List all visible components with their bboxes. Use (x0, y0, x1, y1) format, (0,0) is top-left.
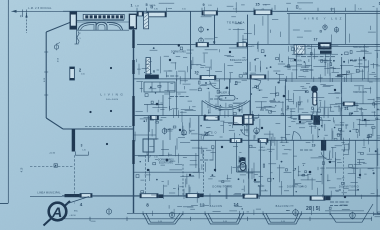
top double line right (287, 13, 380, 15)
living wall bottom (63, 128, 134, 130)
accent dot 1 (239, 160, 242, 163)
right wall seg y103 (343, 102, 355, 106)
ref dot b (110, 110, 112, 112)
circ 35 (323, 24, 327, 31)
cocina verts b (311, 44, 313, 79)
section break squiggle (77, 32, 79, 44)
dim arrow left (12, 10, 17, 13)
column C1 (70, 67, 75, 80)
top tick 7 (287, 8, 289, 12)
ref dot a (110, 67, 112, 69)
paso vert b (169, 128, 171, 140)
tick y213 0 (142, 211, 144, 215)
top tick 4 (217, 8, 219, 12)
hab line y46 (300, 45, 380, 47)
hab pier bar (320, 51, 332, 54)
dorm esc top wall (134, 154, 199, 156)
wall seg y140 b (258, 139, 268, 143)
hall vert b (162, 95, 164, 116)
dashed vert x145 (144, 155, 146, 196)
tt5 (240, 129, 248, 131)
wall seg y115 a (204, 116, 219, 120)
arch baseline (77, 29, 129, 31)
right edge vertical (376, 11, 378, 213)
stair tread a (209, 104, 211, 113)
front wall seg 2 (140, 194, 158, 198)
cocina vert (229, 79, 231, 95)
accent dot 4 (204, 115, 207, 118)
dorm1 vert b (182, 164, 184, 196)
drafting arrow (337, 73, 356, 76)
br mark 2 (375, 216, 380, 218)
door paso2 (292, 131, 301, 140)
balcony sym 4 (350, 212, 356, 220)
palier vert left (201, 101, 203, 116)
toilet (240, 157, 245, 164)
top tick 1 (146, 8, 148, 12)
front pier 2 (326, 196, 331, 200)
front pier 3 (200, 194, 204, 198)
accent dot 9 (156, 103, 159, 106)
stair tread c (232, 108, 234, 116)
dashed horiz y166 (30, 165, 74, 167)
wall seg y44 a (196, 43, 209, 47)
door paso1 (203, 131, 212, 140)
stair tread d (241, 105, 243, 113)
clutter palier band (136, 80, 287, 122)
vert x341 habitacion (341, 57, 343, 140)
tt3 (300, 69, 313, 71)
wall pier dark y44 (318, 42, 332, 49)
tick y213 5 (301, 211, 303, 215)
vert x148 lower (147, 116, 149, 162)
accent dot 17 (294, 59, 296, 61)
clutter right band2 (285, 117, 380, 149)
dorm north dot (178, 44, 180, 46)
balcony pier left (70, 12, 76, 29)
tt1 (170, 96, 189, 98)
balcony railing bar (83, 14, 124, 19)
bath fixture oval (240, 163, 246, 171)
terraza inner vert (267, 15, 269, 45)
hab pier frame (319, 43, 332, 50)
railing lower line 1 (77, 20, 124, 22)
hab line y54 (300, 53, 338, 55)
window symbol (54, 44, 58, 51)
accent dot 19 (169, 59, 171, 61)
bottom dim line (57, 218, 372, 220)
small square sym (54, 164, 57, 167)
section marker A circle (49, 203, 67, 221)
cocina verts a (296, 44, 298, 79)
cabinet div 3 (167, 82, 169, 92)
main wall vertical (133, 29, 135, 214)
living wall diagonal (46, 22, 71, 32)
living wall tick 3 (44, 94, 48, 96)
living wall bottom diagonal (46, 118, 63, 129)
kitchen counter (285, 65, 310, 67)
tick y213 2 (204, 211, 206, 215)
linea municipal thin (30, 195, 62, 197)
pier stub tick (75, 43, 79, 45)
hall horiz a (144, 104, 163, 106)
column circle (311, 86, 318, 93)
tall pier y140 (321, 140, 326, 151)
wall seg y79 a (200, 76, 216, 80)
right vert x364 (364, 44, 366, 79)
section cut line thin (66, 197, 89, 205)
clutter breakfast (137, 46, 291, 84)
closet vert x277 (276, 140, 278, 160)
accent dot 12 (364, 119, 366, 121)
hab dot (363, 57, 365, 59)
accent dot 11 (334, 89, 336, 91)
railing lower line 2 (77, 21, 129, 23)
clutter dorm band right (286, 143, 380, 199)
tt9 (200, 159, 213, 161)
palier dot (226, 87, 229, 90)
balcony sym 3 (293, 209, 299, 217)
hatched pier y44 (294, 45, 305, 54)
terraza pier hatched (144, 13, 149, 29)
clutter aire y luz (293, 26, 376, 44)
top tick 0 (136, 8, 138, 12)
bath wall vert (236, 140, 238, 172)
right edge tick 1 (375, 78, 379, 80)
clutter right mid (285, 82, 380, 121)
pier y79 dark (145, 75, 159, 79)
paso vert a (155, 116, 157, 140)
top tick 8 (317, 8, 319, 12)
br tiny row 1 (330, 201, 349, 203)
palier vert right (249, 101, 251, 116)
tt2 (210, 98, 222, 100)
vert x293 (293, 140, 295, 196)
duct below column (313, 92, 317, 105)
door hall (241, 128, 249, 136)
right edge tick 2 (375, 115, 379, 117)
palier top cap (219, 96, 235, 101)
dim tick b (26, 10, 28, 15)
main wall thick segment 1 (132, 96, 134, 126)
terraza vert wall 2 (247, 15, 249, 79)
terraza sym 2 (199, 37, 204, 44)
balcony dip 4 right (330, 204, 373, 222)
door cocina (252, 79, 261, 88)
front wall dark seg (65, 194, 81, 197)
wall seg y44 b (237, 43, 248, 47)
br mark 1 (373, 214, 380, 216)
tt10 (260, 109, 268, 111)
wall seg y140 a (230, 139, 242, 143)
vert x198 (198, 116, 200, 172)
dim arrow up (25, 14, 27, 18)
vert x260 (260, 140, 262, 196)
accent dot 15 (329, 161, 331, 163)
top wall segment D (137, 12, 144, 16)
railing balusters (85, 15, 123, 18)
tt6 (150, 119, 162, 121)
wall seg y79 b (250, 75, 266, 79)
front wall seg 1 (80, 194, 92, 198)
accent dot 18 (229, 51, 231, 53)
front wall seg 3 (186, 194, 199, 198)
vert right block b (345, 14, 347, 45)
paso sym 2 (182, 129, 187, 136)
accent dot 2 (309, 171, 312, 174)
tick y213 4 (262, 211, 264, 215)
dim tick a (22, 10, 24, 18)
right dorm vert x355 (355, 140, 357, 196)
shaft box 2 (234, 116, 243, 125)
balcony dip 2 (205, 213, 244, 224)
stub threshold (75, 152, 88, 156)
tiny after bar (166, 75, 178, 77)
hatched pier kitchen (146, 58, 150, 75)
top tick 3 (201, 8, 203, 12)
top tick 9 (331, 8, 333, 12)
ref dot d (106, 143, 108, 145)
palier stair arc2 (205, 101, 247, 109)
clutter bottom strip (153, 205, 380, 220)
circ 30 (334, 26, 338, 33)
clutter dorm band (136, 142, 291, 205)
pier stub vertical (76, 29, 78, 44)
hall vert a (176, 79, 178, 116)
door palier (210, 79, 220, 89)
hab tiny row (301, 56, 335, 58)
living wall tick 1 (44, 51, 48, 53)
tick y213 3 (243, 211, 245, 215)
palier stair arc (202, 101, 250, 110)
terraza vert wall 1 (214, 15, 216, 44)
accent dot 0 (166, 159, 169, 162)
accent dot 14 (254, 179, 256, 181)
balcony sym 1 (106, 208, 111, 216)
wall seg y115 b (299, 115, 313, 120)
bottom tick 1 (89, 217, 91, 221)
shaft box (244, 115, 253, 125)
pier y115 dark (313, 115, 320, 124)
balcony inner line right (325, 210, 364, 212)
main wall thick segment 2 (132, 140, 134, 164)
top tick 2 (166, 8, 168, 12)
pier right foot (130, 26, 134, 29)
terraza sym 1 (199, 26, 204, 33)
clutter terraza (201, 16, 281, 52)
vert x323 (323, 151, 325, 197)
accent dot 16 (359, 174, 361, 176)
accent dot 13 (189, 174, 191, 176)
balcony dip 3 (263, 213, 302, 224)
main wall thick segment 3 (132, 60, 134, 74)
cabinet div 2 (159, 82, 161, 92)
bath dark blob (240, 158, 246, 162)
vert x248 (248, 116, 250, 197)
top tick 10 (345, 8, 347, 12)
accent dot 6 (261, 127, 263, 129)
balcony dip 1 (143, 213, 183, 224)
dorm2 dashed vert (203, 150, 205, 196)
paper edge vertical (7, 0, 9, 203)
clutter top strip (151, 2, 380, 16)
living dashed interior (85, 125, 134, 127)
tt7 (300, 149, 312, 151)
arch detail (78, 22, 123, 30)
bottom line 1 (127, 212, 380, 214)
top tick 5 (253, 8, 255, 12)
cocina vert b (250, 79, 252, 116)
door frame rect (143, 139, 154, 152)
paper edge corner (0, 203, 8, 205)
dim vert x343 dash (343, 150, 345, 195)
right edge tick 4 (375, 43, 379, 45)
front wall line (62, 195, 380, 197)
interior horiz y172 (134, 171, 199, 173)
wall x285 (285, 79, 287, 140)
front wall seg 5 (310, 196, 325, 200)
wall stub left (72, 129, 75, 151)
accent dot 3 (344, 196, 346, 198)
hline y81 right (285, 80, 380, 82)
cabinet div 1 (151, 82, 153, 92)
sink (238, 166, 246, 171)
front pier 1 (159, 194, 164, 198)
door dorm3 (321, 151, 330, 160)
wall y140 (191, 139, 380, 141)
top tick 11 (376, 8, 378, 12)
circ 75 (254, 127, 260, 135)
ref dot c (89, 111, 91, 113)
wall y115 (134, 115, 380, 117)
tick y213 1 (182, 211, 184, 215)
vertical dashed dim (26, 13, 28, 33)
section cut line (44, 201, 71, 226)
bottom tick 5 (309, 217, 311, 221)
top-left dim line (12, 10, 64, 12)
accent dot 21 (214, 169, 216, 171)
top tick 6 (271, 8, 273, 12)
tt4 (350, 59, 367, 61)
closet vert x270 (270, 140, 272, 196)
bottom tick 2 (126, 217, 128, 221)
accent dot 8 (179, 129, 181, 131)
bottom tick 3 (190, 217, 192, 221)
vert right block a (288, 14, 290, 45)
wall y44 (137, 43, 380, 45)
br tiny row 2 (330, 205, 348, 207)
accent dot 7 (221, 146, 223, 148)
living wall tick 2 (44, 71, 48, 73)
front wall seg 4 (243, 194, 258, 198)
clutter cocina block (287, 46, 380, 83)
accent dot 5 (283, 95, 286, 98)
main wall thick segment 4 (132, 30, 134, 48)
dorm1 vert (162, 140, 164, 156)
wall y79 (134, 78, 380, 80)
stair tread b (219, 108, 221, 116)
bath west wall (215, 140, 217, 172)
tt8 (340, 124, 348, 126)
stub dashed vertical (74, 155, 76, 196)
wall seg y115 c (150, 116, 159, 120)
bottom tick 6 (371, 217, 373, 221)
balcony sym 2 (169, 211, 174, 219)
bottom tick 0 (61, 217, 63, 221)
top dim line full (63, 10, 380, 12)
clutter paso band (135, 117, 286, 149)
living wall left vertical (45, 32, 47, 118)
bath wall horiz (237, 171, 261, 173)
cabinet outline (144, 82, 175, 92)
accent dot 20 (147, 169, 149, 171)
paso sym 1 (162, 127, 167, 134)
top wall segment A (147, 12, 167, 17)
accent dot 10 (299, 121, 301, 123)
bottom tick 4 (247, 217, 249, 221)
tick y213 6 (329, 211, 331, 215)
top wall segment B (202, 11, 218, 15)
right horiz y168 (326, 167, 380, 169)
balcony pier right (129, 14, 136, 28)
terraza left edge (190, 11, 192, 79)
paso horiz (134, 134, 157, 136)
right horiz y103 (340, 103, 380, 105)
top wall segment C (254, 10, 272, 15)
window symbol flag (57, 43, 61, 45)
right edge tick 3 (375, 139, 379, 141)
